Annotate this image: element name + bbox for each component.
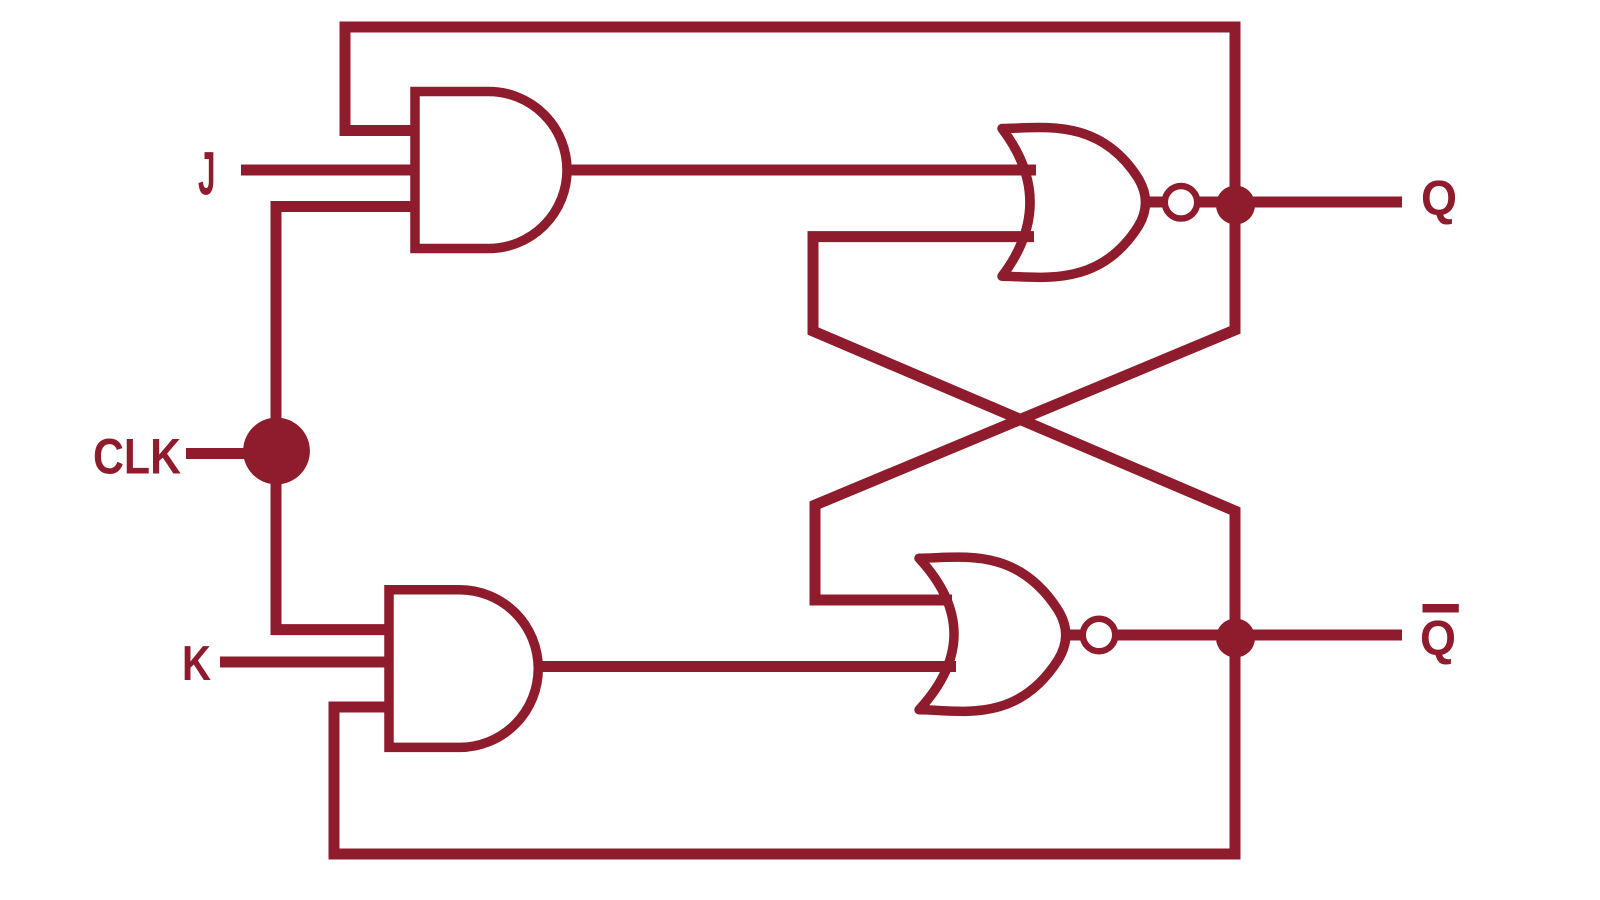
nor-gate U3 bubble	[1165, 186, 1198, 219]
nor-gate U4 bubble	[1083, 619, 1116, 652]
wire AND1 output to NOR1 upper input	[567, 165, 1036, 176]
svg-text:CLK: CLK	[93, 429, 181, 485]
wire NOR1 bubble to Q node and Q output	[1195, 197, 1402, 208]
nor-gate U3 (top) body	[1002, 127, 1146, 277]
svg-text:K: K	[182, 637, 211, 691]
svg-text:Q: Q	[1420, 612, 1456, 666]
label Qbar overbar	[1423, 604, 1459, 613]
wire K input	[220, 657, 389, 668]
wire CLK vertical: AND1 lower input down through CLK node to AND2 upper input	[276, 207, 416, 630]
svg-text:J: J	[198, 140, 216, 208]
node Qbar junction dot	[1216, 619, 1255, 658]
wire net Qbar: NOR1 lower input, cross wire down, bottom feedback loop to AND2 lower input	[334, 237, 1235, 854]
wire AND2 output to NOR2 lower input	[538, 661, 956, 672]
node Q junction dot	[1216, 186, 1255, 225]
nor-gate U4 (bottom) body	[919, 557, 1066, 711]
node CLK junction dot	[243, 418, 310, 485]
and-gate U1 (top, 3-input)	[415, 92, 567, 249]
wire NOR2 bubble to Qbar node and Qbar output	[1114, 630, 1402, 641]
svg-text:Q: Q	[1421, 172, 1457, 226]
wire CLK stub	[186, 448, 277, 459]
and-gate U2 (bottom, 3-input)	[389, 590, 538, 748]
wire NOR1 tip to bubble	[1149, 197, 1164, 208]
wire net Q: top feedback loop, vertical through Q node, cross wire to NOR2 upper input	[345, 27, 1235, 600]
wire J input	[241, 165, 416, 176]
wire NOR2 tip to bubble	[1064, 630, 1084, 641]
